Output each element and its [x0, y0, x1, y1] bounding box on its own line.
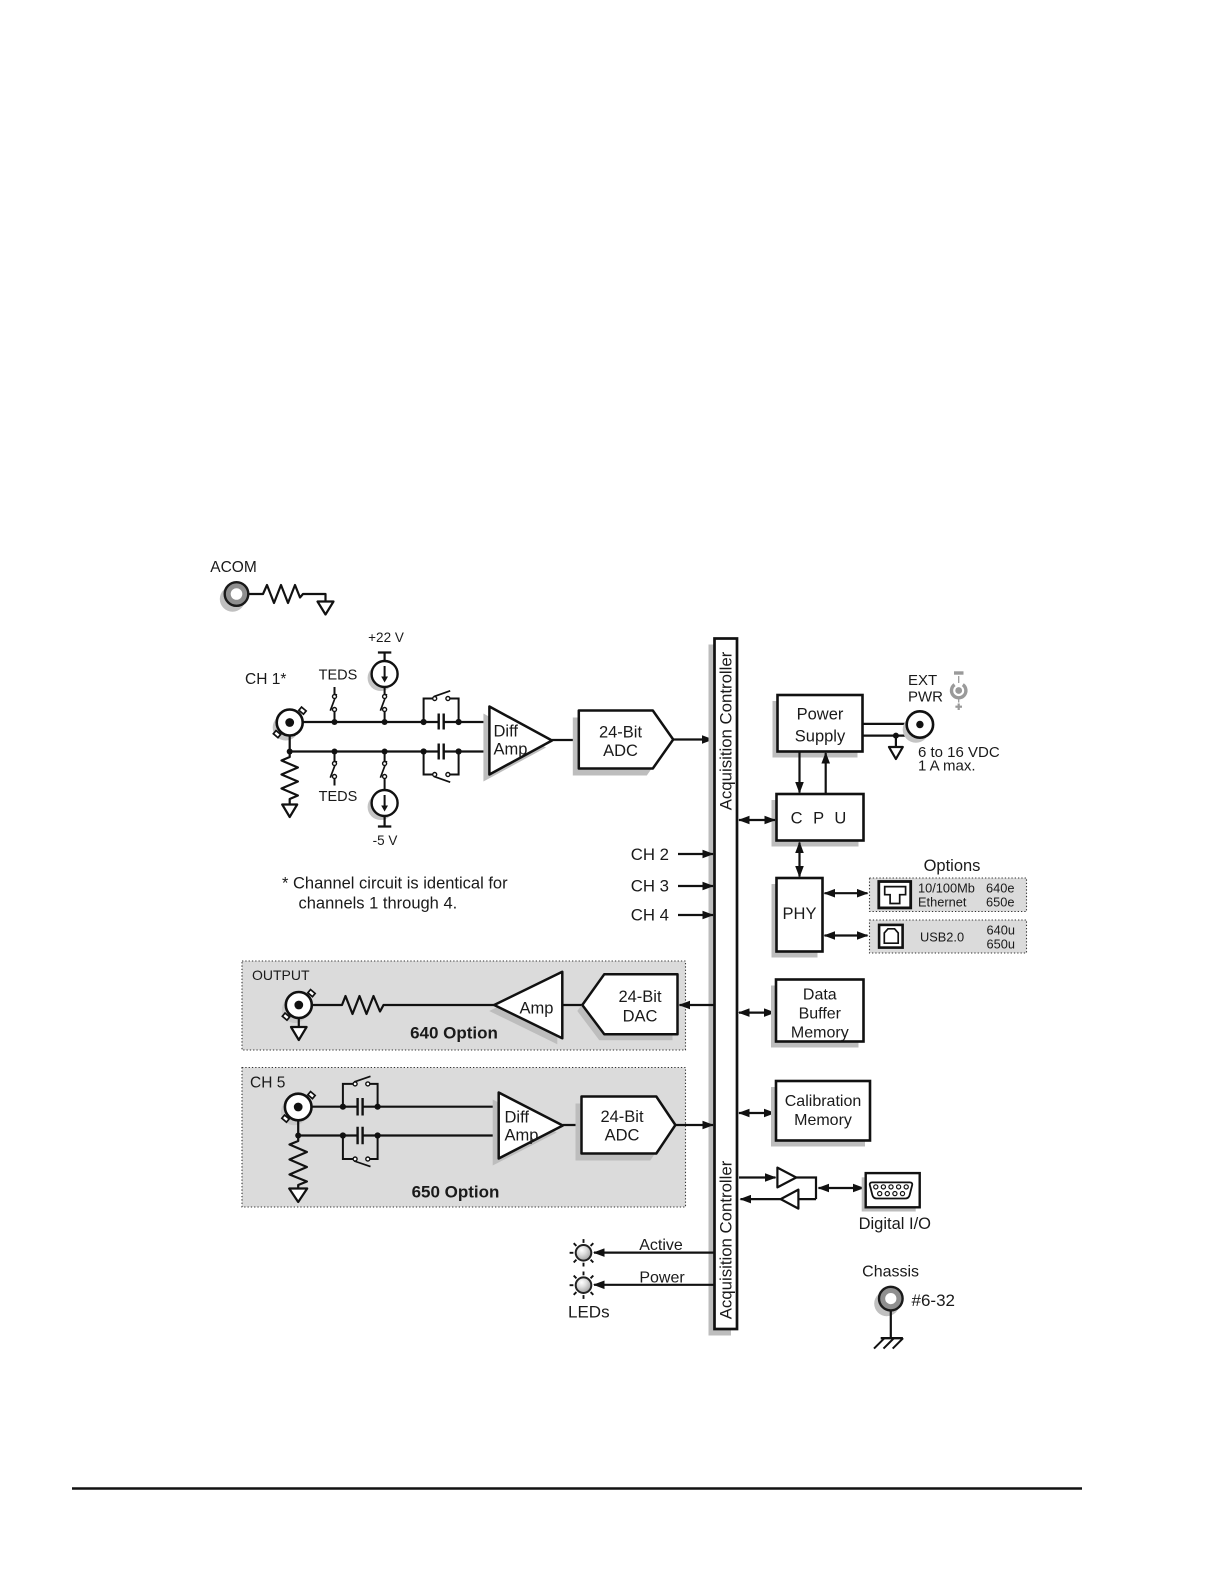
- wire PS to EXT PWR (top): [863, 723, 907, 725]
- ground (ACOM): [318, 602, 334, 615]
- bottom rail CH5: [298, 1120, 499, 1135]
- svg-text:Calibration: Calibration: [785, 1093, 861, 1110]
- ground (OUTPUT BNC): [298, 1018, 300, 1027]
- bypass switch bottom: [433, 773, 451, 783]
- Acquisition Controller bar: [715, 639, 738, 1330]
- capacitor C top: [439, 714, 444, 730]
- svg-text:24-Bit: 24-Bit: [600, 1108, 644, 1126]
- op-amp Amp (shadow): [489, 978, 557, 1044]
- svg-text:CH 4: CH 4: [631, 906, 669, 925]
- switch below +22V source: [380, 687, 386, 722]
- wire bar to Power LED: [594, 1284, 715, 1286]
- svg-text:PWR: PWR: [908, 689, 943, 706]
- USB icon: [879, 925, 903, 948]
- EXT PWR jack: [903, 711, 933, 742]
- Ethernet option box: [870, 878, 1027, 912]
- svg-text:Options: Options: [924, 857, 981, 875]
- cap bypass loop bottom: [424, 752, 459, 775]
- svg-text:Supply: Supply: [795, 728, 846, 746]
- svg-text:CH 1*: CH 1*: [245, 671, 286, 688]
- svg-text:640e: 640e: [986, 881, 1014, 896]
- BNC connector CH1: [273, 707, 306, 740]
- arrow PHY-Ethernet (bidirectional): [825, 892, 868, 894]
- svg-text:#6-32: #6-32: [912, 1291, 955, 1310]
- svg-text:CH 5: CH 5: [250, 1075, 285, 1092]
- op-amp Diff Amp CH1: [489, 707, 552, 775]
- arrow PHY-USB (bidirectional): [825, 934, 868, 936]
- bypass switch top: [433, 691, 451, 701]
- resistor to ground CH1: [282, 754, 298, 804]
- buffer (out): [777, 1168, 796, 1188]
- svg-text:Buffer: Buffer: [799, 1006, 842, 1023]
- svg-text:24-Bit: 24-Bit: [618, 988, 662, 1006]
- BNC connector CH5: [281, 1092, 315, 1126]
- wire node to ground: [895, 736, 897, 747]
- node dots bottom rail: [287, 748, 462, 754]
- wire bar to Active LED: [594, 1251, 715, 1253]
- svg-text:channels 1 through 4.: channels 1 through 4.: [299, 895, 458, 913]
- Digital I/O DB9 box (shadow): [862, 1177, 916, 1211]
- arrow bar-CalibrationMemory (bidirectional): [739, 1112, 775, 1114]
- ground (EXT PWR): [889, 747, 903, 759]
- buffer bus wires: [796, 1178, 816, 1200]
- cap bypass loop top: [424, 699, 459, 723]
- arrow buffers-DB9 (bidirectional): [819, 1187, 864, 1189]
- chassis screw #6-32: [874, 1287, 902, 1316]
- arrow bar to DAC: [680, 1004, 715, 1006]
- Digital I/O DB9 box: [866, 1173, 920, 1207]
- svg-text:USB2.0: USB2.0: [920, 930, 964, 945]
- 24-Bit DAC (shadow): [577, 980, 672, 1040]
- svg-text:TEDS: TEDS: [319, 668, 358, 684]
- Power Supply box (shadow): [773, 701, 858, 758]
- capacitor C bottom: [439, 744, 444, 760]
- wire Amp to DAC: [562, 1004, 582, 1006]
- 24-Bit ADC CH5 (shadow): [576, 1104, 670, 1161]
- svg-text:DAC: DAC: [623, 1008, 658, 1026]
- svg-text:* Channel circuit is identical: * Channel circuit is identical for: [282, 875, 508, 893]
- footnote: channel circuit note: [282, 875, 508, 913]
- node dots top rail: [332, 719, 462, 725]
- wire top rail CH1: [303, 721, 490, 723]
- svg-text:Digital I/O: Digital I/O: [859, 1215, 932, 1233]
- DB9 pins: [874, 1185, 909, 1196]
- Power Supply box: [778, 695, 863, 752]
- svg-text:Memory: Memory: [794, 1112, 852, 1129]
- svg-text:1 A max.: 1 A max.: [918, 758, 976, 775]
- 24-Bit ADC CH5: [582, 1097, 676, 1154]
- svg-text:650e: 650e: [986, 895, 1014, 910]
- arrow bar to output buffer: [739, 1176, 776, 1178]
- svg-text:Active: Active: [639, 1237, 683, 1254]
- svg-text:Amp: Amp: [494, 741, 528, 759]
- wire screw to chassis ground: [890, 1311, 892, 1338]
- buffer (in): [781, 1190, 799, 1209]
- arrow in-buffer to bar: [741, 1198, 781, 1200]
- Acquisition Controller bar (shadow): [709, 645, 732, 1336]
- svg-text:+22 V: +22 V: [368, 630, 404, 645]
- node on bottom wire: [893, 733, 899, 739]
- bypass switch bottom CH5: [353, 1157, 370, 1167]
- wire PS to EXT PWR (bottom): [863, 734, 912, 736]
- svg-text:640u: 640u: [987, 923, 1015, 938]
- current source +22V: [368, 661, 398, 691]
- svg-text:10/100Mb: 10/100Mb: [918, 881, 975, 896]
- -5V source bar: [378, 816, 391, 827]
- svg-text:ADC: ADC: [603, 742, 638, 760]
- Calibration Memory box: [776, 1081, 870, 1141]
- svg-text:24-Bit: 24-Bit: [599, 724, 643, 742]
- Data Buffer Memory box (shadow): [771, 986, 859, 1048]
- node dots CH5: [295, 1104, 381, 1139]
- horizontal rule (footer): [72, 1487, 1082, 1490]
- DB9 connector outline: [870, 1182, 913, 1198]
- svg-text:ACOM: ACOM: [210, 559, 257, 576]
- arrow bar-CPU (bidirectional): [739, 819, 775, 821]
- svg-text:-5 V: -5 V: [373, 833, 398, 848]
- cap bypass loop bottom CH5: [343, 1136, 378, 1160]
- +22V source bar: [378, 653, 391, 662]
- svg-text:CH 3: CH 3: [631, 877, 669, 896]
- svg-text:CH 2: CH 2: [631, 845, 669, 864]
- 640 Option box: [242, 961, 686, 1050]
- Calibration Memory box (shadow): [771, 1087, 865, 1147]
- svg-text:Diff: Diff: [494, 723, 519, 741]
- svg-text:ADC: ADC: [605, 1127, 640, 1145]
- arrow CPU to PS: [825, 753, 827, 794]
- 24-Bit DAC: [582, 974, 677, 1034]
- top rail CH5: [312, 1106, 499, 1108]
- svg-text:LEDs: LEDs: [568, 1303, 610, 1322]
- wire DiffAmp to ADC CH5: [563, 1124, 582, 1126]
- ground CH1: [282, 805, 297, 818]
- switch above -5V source: [380, 752, 386, 791]
- op-amp Diff Amp CH1 (shadow): [483, 714, 546, 782]
- svg-text:Acquisition Controller: Acquisition Controller: [717, 1160, 736, 1319]
- arrow CPU-PHY (bidirectional): [798, 843, 800, 877]
- arrow ADC CH5 to bar: [675, 1124, 713, 1126]
- CPU box (shadow): [772, 800, 859, 847]
- op-amp Diff Amp CH5: [499, 1093, 563, 1159]
- svg-text:TEDS: TEDS: [319, 789, 358, 805]
- arrow PS to CPU: [798, 752, 800, 793]
- svg-text:Amp: Amp: [505, 1127, 539, 1145]
- svg-text:Diff: Diff: [505, 1109, 530, 1127]
- wire bottom rail CH1: [290, 736, 490, 752]
- TEDS switch top: [330, 687, 336, 722]
- capacitor bottom CH5: [358, 1127, 363, 1145]
- Data Buffer Memory box: [776, 980, 864, 1042]
- svg-text:Ethernet: Ethernet: [918, 895, 967, 910]
- op-amp Diff Amp CH5 (shadow): [493, 1100, 557, 1166]
- resistor to ground CH5: [290, 1138, 307, 1188]
- svg-text:650 Option: 650 Option: [412, 1183, 500, 1202]
- svg-text:Data: Data: [803, 987, 837, 1004]
- svg-text:Power: Power: [639, 1269, 685, 1286]
- svg-text:640 Option: 640 Option: [410, 1024, 498, 1043]
- svg-text:Chassis: Chassis: [862, 1263, 919, 1280]
- chassis ground: [874, 1338, 903, 1348]
- LED Power: [570, 1272, 594, 1299]
- svg-text:PHY: PHY: [783, 905, 817, 923]
- 24-Bit ADC CH1: [579, 711, 673, 769]
- BNC connector OUTPUT: [282, 990, 315, 1023]
- svg-text:Power: Power: [797, 706, 844, 724]
- RJ45 icon: [879, 882, 911, 908]
- ground CH5: [289, 1189, 307, 1203]
- 24-Bit ADC CH1 (shadow): [573, 718, 667, 776]
- capacitor top CH5: [358, 1098, 363, 1116]
- PHY box: [777, 878, 823, 952]
- wire DiffAmp to ADC: [552, 739, 579, 741]
- cap bypass loop top CH5: [343, 1084, 378, 1107]
- svg-text:Memory: Memory: [791, 1025, 849, 1042]
- ACOM connector: [220, 582, 249, 612]
- svg-text:Amp: Amp: [520, 1000, 554, 1018]
- 650 Option box: [242, 1068, 686, 1208]
- svg-text:OUTPUT: OUTPUT: [252, 967, 310, 983]
- USB option box: [870, 920, 1027, 953]
- svg-text:EXT: EXT: [908, 672, 937, 689]
- LED Active: [570, 1239, 594, 1266]
- svg-text:Acquisition Controller: Acquisition Controller: [717, 651, 736, 810]
- arrow ADC to Acquisition Controller: [673, 738, 712, 740]
- TEDS switch bottom: [330, 752, 336, 786]
- bypass switch top CH5: [353, 1076, 370, 1086]
- PHY box (shadow): [772, 884, 818, 958]
- op-amp Amp: [494, 972, 562, 1038]
- svg-text:C P U: C P U: [791, 810, 850, 828]
- resistor (ACOM to ground): [249, 585, 326, 603]
- polarity icon (gray): [952, 673, 966, 710]
- resistor (output): [312, 996, 494, 1014]
- CPU box: [777, 794, 864, 841]
- arrow bar-DataBufferMemory (bidirectional): [739, 1011, 775, 1013]
- current source -5V: [368, 790, 398, 820]
- svg-text:650u: 650u: [987, 937, 1015, 952]
